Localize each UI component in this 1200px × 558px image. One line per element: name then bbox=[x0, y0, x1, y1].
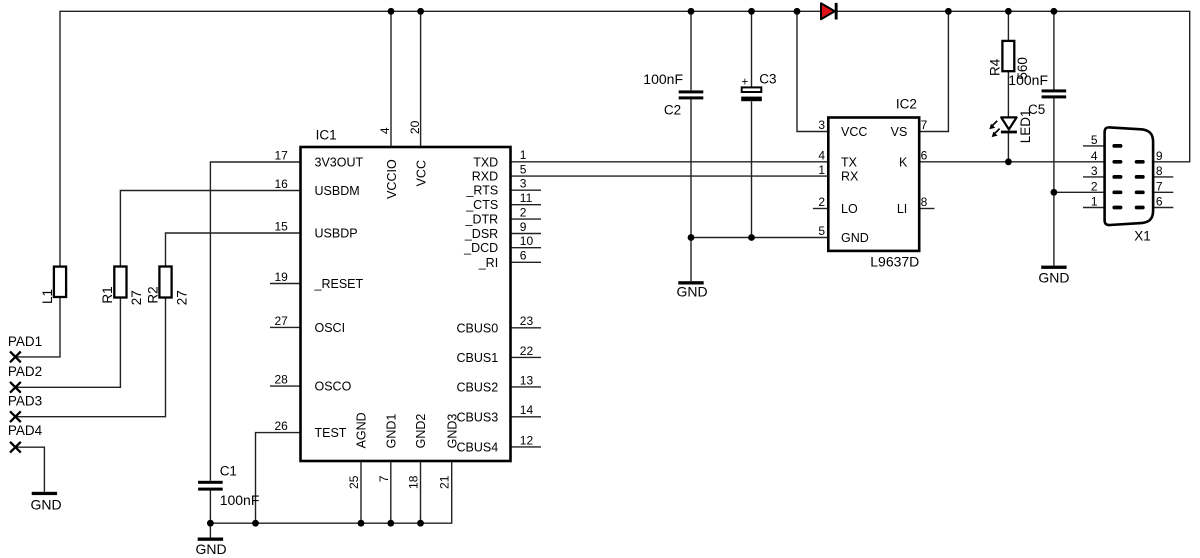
svg-text:_RI: _RI bbox=[478, 256, 498, 270]
wire VS rail (diode cathode to X1 pin9) bbox=[837, 11, 1190, 162]
wire C3 bottom bbox=[751, 101, 753, 237]
svg-text:19: 19 bbox=[274, 270, 288, 284]
svg-text:L9637D: L9637D bbox=[870, 253, 919, 269]
svg-text:_DSR: _DSR bbox=[464, 227, 498, 241]
pin stub X1 pin6 bbox=[1145, 207, 1174, 209]
svg-text:GND2: GND2 bbox=[414, 414, 428, 449]
svg-text:VCCIO: VCCIO bbox=[385, 159, 399, 199]
svg-text:PAD2: PAD2 bbox=[8, 364, 42, 379]
diode D1 (red) bbox=[821, 3, 835, 19]
wire VBUS top rail (L1 to diode anode) bbox=[60, 11, 821, 266]
pin stub IC1 CBUS3 14 bbox=[511, 416, 542, 418]
ground symbol below PAD4 bbox=[32, 492, 57, 495]
svg-text:4: 4 bbox=[1091, 149, 1098, 163]
wire RXD net (IC1 pin5 to IC2 RX) bbox=[511, 175, 829, 177]
X1 left pad pin 4 bbox=[1112, 160, 1122, 164]
svg-text:100nF: 100nF bbox=[1008, 72, 1048, 88]
wire GND1 drop bbox=[390, 461, 392, 523]
svg-text:TX: TX bbox=[841, 155, 858, 169]
X1 left pad pin 5 bbox=[1112, 144, 1122, 148]
wire C2 bottom to GND rail bbox=[690, 99, 692, 237]
svg-text:PAD3: PAD3 bbox=[8, 394, 42, 409]
X1 left pad pin 3 bbox=[1112, 175, 1122, 179]
capacitor C3 (polarized) bbox=[742, 87, 762, 92]
capacitor C2 bbox=[679, 90, 704, 93]
svg-text:25: 25 bbox=[347, 475, 361, 489]
pin stub X1 pin1 bbox=[1083, 207, 1113, 209]
svg-text:15: 15 bbox=[274, 219, 288, 233]
svg-text:10: 10 bbox=[520, 234, 534, 248]
pin stub IC1 OSCI 27 bbox=[270, 326, 301, 328]
wire 3V3OUT to C1 bbox=[210, 162, 300, 481]
svg-text:100nF: 100nF bbox=[220, 492, 260, 508]
svg-text:100nF: 100nF bbox=[643, 71, 683, 87]
wire K net (IC2 pin6 to X1 pin4) bbox=[919, 161, 1113, 163]
wire GND rail to IC2 pin5 bbox=[691, 237, 828, 239]
svg-text:RXD: RXD bbox=[472, 170, 498, 184]
svg-text:4: 4 bbox=[378, 127, 392, 134]
svg-text:6: 6 bbox=[520, 249, 527, 263]
pin stub IC1 _RI 6 bbox=[511, 261, 542, 263]
junction C3 GND bbox=[748, 234, 755, 241]
junction GND2 rail bbox=[417, 520, 424, 527]
svg-text:27: 27 bbox=[274, 314, 288, 328]
svg-text:1: 1 bbox=[818, 163, 825, 177]
wire LED1 cathode to K line bbox=[1007, 132, 1009, 162]
svg-text:C1: C1 bbox=[220, 464, 237, 479]
svg-text:GND3: GND3 bbox=[445, 414, 459, 449]
junction AGND rail bbox=[358, 520, 365, 527]
svg-text:CBUS4: CBUS4 bbox=[457, 440, 499, 454]
svg-text:4: 4 bbox=[818, 149, 825, 163]
X1 right pad pin 6 bbox=[1135, 206, 1145, 210]
wire USBDP to R2 bbox=[166, 233, 301, 267]
svg-text:21: 21 bbox=[438, 475, 452, 489]
pad PAD3 cross bbox=[10, 411, 21, 422]
svg-text:17: 17 bbox=[274, 148, 288, 162]
wire USBDM to R1 bbox=[120, 191, 300, 267]
svg-text:CBUS0: CBUS0 bbox=[457, 321, 499, 335]
svg-text:27: 27 bbox=[129, 290, 144, 305]
pin stub IC1 _DSR 9 bbox=[511, 233, 542, 235]
wire TEST to GND rail bbox=[256, 433, 301, 524]
svg-text:3V3OUT: 3V3OUT bbox=[315, 156, 364, 170]
svg-text:18: 18 bbox=[407, 475, 421, 489]
svg-text:X1: X1 bbox=[1134, 228, 1151, 243]
wire C1 GND drop bbox=[209, 523, 211, 537]
svg-text:C2: C2 bbox=[664, 102, 681, 117]
svg-text:_DCD: _DCD bbox=[463, 241, 498, 255]
capacitor C1 bbox=[198, 481, 223, 484]
junction VCCIO rail bbox=[388, 8, 395, 15]
svg-text:VCC: VCC bbox=[414, 160, 428, 186]
junction IC2 VCC rail bbox=[794, 8, 801, 15]
junction IC2 VS rail bbox=[945, 8, 952, 15]
wire R4 to LED1 bbox=[1007, 71, 1009, 117]
svg-text:VCC: VCC bbox=[841, 125, 867, 139]
X1 left pad pin 1 bbox=[1112, 206, 1122, 210]
pad PAD4 cross bbox=[10, 442, 21, 453]
svg-text:USBDM: USBDM bbox=[315, 184, 360, 198]
svg-text:R4: R4 bbox=[987, 58, 1002, 76]
resistor R4 bbox=[1002, 41, 1014, 71]
svg-text:CBUS3: CBUS3 bbox=[457, 410, 499, 424]
wire C1 bottom to GND rail bbox=[209, 491, 211, 524]
pin stub IC1 _RESET 19 bbox=[270, 283, 301, 285]
svg-text:GND: GND bbox=[1038, 270, 1069, 286]
pad PAD1 cross bbox=[10, 352, 21, 363]
svg-text:20: 20 bbox=[408, 120, 422, 134]
X1 right pad pin 7 bbox=[1135, 190, 1145, 194]
wire C5 top bbox=[1053, 11, 1055, 89]
pin stub IC2 LO 2 bbox=[813, 208, 828, 210]
wire R2 to PAD3 bbox=[15, 298, 165, 417]
wire C2 top bbox=[690, 11, 692, 90]
wire TXD net (IC1 pin1 to IC2 TX) bbox=[511, 161, 829, 163]
svg-text:IC1: IC1 bbox=[316, 127, 337, 142]
svg-text:LO: LO bbox=[841, 202, 858, 216]
svg-text:28: 28 bbox=[274, 373, 288, 387]
wire VCC branch to IC2 pin3 bbox=[797, 11, 828, 131]
wire R1 to PAD2 bbox=[15, 298, 120, 388]
svg-text:8: 8 bbox=[921, 195, 928, 209]
svg-text:6: 6 bbox=[1156, 195, 1163, 209]
svg-text:8: 8 bbox=[1156, 164, 1163, 178]
pin stub IC1 _RTS 3 bbox=[511, 189, 542, 191]
LED1 emission arrows bbox=[992, 121, 998, 127]
wire GND bottom rail bbox=[210, 461, 451, 523]
svg-text:CBUS2: CBUS2 bbox=[457, 380, 499, 394]
connector X1 (DB9) outline bbox=[1105, 127, 1154, 225]
inductor L1 bbox=[54, 267, 66, 297]
svg-text:6: 6 bbox=[921, 149, 928, 163]
svg-text:_RTS: _RTS bbox=[465, 184, 498, 198]
pin stub IC1 _DCD 10 bbox=[511, 247, 542, 249]
svg-text:L1: L1 bbox=[40, 289, 55, 304]
svg-text:5: 5 bbox=[1091, 133, 1098, 147]
pin stub IC1 CBUS2 13 bbox=[511, 386, 542, 388]
resistor R2 bbox=[159, 267, 171, 298]
svg-text:IC2: IC2 bbox=[896, 96, 917, 111]
svg-text:R2: R2 bbox=[145, 286, 160, 303]
svg-text:_CTS: _CTS bbox=[465, 198, 498, 212]
pin stub IC1 CBUS4 12 bbox=[511, 446, 542, 448]
svg-text:3: 3 bbox=[1091, 164, 1098, 178]
svg-text:1: 1 bbox=[1091, 195, 1098, 209]
junction GND1 rail bbox=[387, 520, 394, 527]
svg-text:TEST: TEST bbox=[315, 426, 347, 440]
svg-text:LI: LI bbox=[897, 202, 907, 216]
X1 left pad pin 2 bbox=[1112, 190, 1122, 194]
svg-text:VS: VS bbox=[891, 125, 908, 139]
ground symbol below C1 bbox=[198, 538, 223, 541]
junction R4 rail bbox=[1005, 8, 1012, 15]
ground symbol below C2 bbox=[678, 281, 703, 284]
X1 right pad pin 8 bbox=[1135, 175, 1145, 179]
svg-text:GND1: GND1 bbox=[385, 414, 399, 449]
svg-text:2: 2 bbox=[520, 206, 527, 220]
junction LED1 K line bbox=[1005, 158, 1012, 165]
svg-text:R1: R1 bbox=[100, 286, 115, 303]
svg-text:K: K bbox=[899, 155, 908, 169]
pin stub IC2 LI 8 bbox=[919, 208, 934, 210]
wire AGND drop bbox=[360, 461, 362, 523]
wire PAD4 to GND bbox=[15, 447, 44, 492]
ground symbol below X1 bbox=[1041, 266, 1066, 269]
svg-text:OSCO: OSCO bbox=[315, 380, 352, 394]
svg-text:12: 12 bbox=[520, 433, 534, 447]
svg-text:GND: GND bbox=[196, 541, 227, 557]
op-amp / IC U1: IC1 box bbox=[301, 147, 511, 461]
pad PAD2 cross bbox=[10, 382, 21, 393]
svg-text:+: + bbox=[742, 77, 749, 89]
svg-text:2: 2 bbox=[818, 195, 825, 209]
svg-text:9: 9 bbox=[520, 220, 527, 234]
pin stub IC1 CBUS0 23 bbox=[511, 327, 542, 329]
svg-text:14: 14 bbox=[520, 403, 534, 417]
wire VCC pin20 drop bbox=[420, 11, 422, 147]
IC U2: IC2 box bbox=[828, 118, 919, 251]
svg-text:9: 9 bbox=[1156, 149, 1163, 163]
svg-text:USBDP: USBDP bbox=[315, 227, 358, 241]
svg-text:GND: GND bbox=[31, 496, 62, 512]
junction C5 rail bbox=[1051, 8, 1058, 15]
pin stub X1 pin3 bbox=[1083, 176, 1113, 178]
svg-text:7: 7 bbox=[1156, 180, 1163, 194]
svg-text:PAD1: PAD1 bbox=[8, 334, 42, 349]
junction C2 GND bbox=[688, 234, 695, 241]
svg-text:13: 13 bbox=[520, 373, 534, 387]
pin stub IC1 _DTR 2 bbox=[511, 218, 542, 220]
wire C3 top bbox=[751, 11, 753, 87]
junction C2 rail bbox=[688, 8, 695, 15]
svg-text:TXD: TXD bbox=[473, 155, 498, 169]
svg-text:_DTR: _DTR bbox=[465, 213, 499, 227]
svg-text:22: 22 bbox=[520, 344, 534, 358]
svg-text:7: 7 bbox=[921, 118, 928, 132]
X1 right pad pin 9 bbox=[1135, 160, 1145, 164]
svg-text:26: 26 bbox=[274, 419, 288, 433]
svg-text:AGND: AGND bbox=[355, 412, 369, 448]
wire C5 bottom to GND bbox=[1053, 96, 1055, 266]
svg-text:7: 7 bbox=[377, 475, 391, 482]
pin stub IC1 _CTS 11 bbox=[511, 204, 542, 206]
wire C2 GND drop bbox=[690, 238, 692, 282]
LED LED1 bbox=[1001, 117, 1016, 129]
wire VS branch to IC2 pin7 bbox=[919, 11, 948, 131]
wire GND branch to X1 pin2 bbox=[1054, 191, 1113, 193]
svg-text:_RESET: _RESET bbox=[314, 277, 364, 291]
pin stub IC1 OSCO 28 bbox=[270, 385, 301, 387]
svg-text:RX: RX bbox=[841, 170, 859, 184]
svg-text:27: 27 bbox=[174, 290, 189, 305]
pin stub X1 pin7 bbox=[1145, 191, 1174, 193]
pin stub IC1 CBUS1 22 bbox=[511, 356, 542, 358]
svg-text:C3: C3 bbox=[759, 72, 776, 87]
svg-text:2: 2 bbox=[1091, 180, 1098, 194]
svg-text:CBUS1: CBUS1 bbox=[457, 351, 499, 365]
svg-text:5: 5 bbox=[520, 163, 527, 177]
svg-text:16: 16 bbox=[274, 177, 288, 191]
capacitor C5 bbox=[1042, 89, 1067, 92]
svg-text:1: 1 bbox=[520, 148, 527, 162]
svg-text:LED1: LED1 bbox=[1018, 109, 1033, 143]
svg-text:3: 3 bbox=[818, 118, 825, 132]
pin stub X1 pin8 bbox=[1145, 176, 1174, 178]
wire GND2 drop bbox=[420, 461, 422, 523]
junction TEST GND rail bbox=[252, 520, 259, 527]
svg-text:11: 11 bbox=[520, 191, 533, 205]
svg-text:PAD4: PAD4 bbox=[8, 423, 43, 438]
wire R4 top bbox=[1007, 11, 1009, 41]
wire VCCIO pin4 drop bbox=[390, 11, 392, 147]
junction C1 GND rail bbox=[207, 520, 214, 527]
svg-text:23: 23 bbox=[520, 314, 534, 328]
junction X1 pin2 GND bbox=[1051, 189, 1058, 196]
svg-text:GND: GND bbox=[677, 283, 708, 299]
svg-text:5: 5 bbox=[818, 224, 825, 238]
junction VCC rail bbox=[417, 8, 424, 15]
svg-text:3: 3 bbox=[520, 177, 527, 191]
junction C3 rail bbox=[748, 8, 755, 15]
pin stub X1 pin5 bbox=[1083, 145, 1113, 147]
svg-text:GND: GND bbox=[841, 231, 869, 245]
svg-text:OSCI: OSCI bbox=[315, 321, 346, 335]
resistor R1 bbox=[114, 267, 126, 298]
wire L1 to PAD1 bbox=[15, 297, 60, 357]
